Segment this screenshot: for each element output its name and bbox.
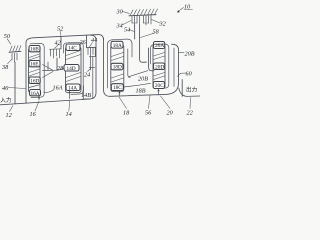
- svg-text:出力: 出力: [186, 86, 198, 94]
- svg-text:44: 44: [91, 37, 97, 44]
- svg-text:46: 46: [2, 85, 9, 92]
- svg-text:60: 60: [186, 71, 193, 78]
- svg-text:16A: 16A: [31, 91, 40, 97]
- svg-text:18A: 18A: [113, 43, 122, 49]
- svg-text:20A: 20A: [155, 43, 164, 49]
- svg-text:34: 34: [116, 23, 123, 30]
- svg-text:16: 16: [30, 111, 37, 118]
- svg-text:14D: 14D: [67, 66, 76, 72]
- svg-text:56: 56: [145, 110, 152, 117]
- svg-text:12: 12: [6, 112, 12, 119]
- svg-text:14A: 14A: [68, 85, 77, 91]
- svg-text:22: 22: [187, 110, 193, 117]
- svg-text:16D: 16D: [30, 78, 39, 84]
- svg-text:18D: 18D: [113, 65, 122, 71]
- svg-text:16E: 16E: [30, 62, 39, 68]
- svg-text:30: 30: [116, 9, 124, 16]
- svg-text:入力: 入力: [0, 96, 12, 104]
- svg-text:20: 20: [167, 110, 174, 117]
- svg-text:32: 32: [159, 21, 166, 28]
- svg-text:26: 26: [80, 39, 87, 46]
- svg-text:50: 50: [4, 33, 11, 40]
- svg-text:14B: 14B: [81, 92, 91, 99]
- svg-text:14: 14: [66, 111, 72, 118]
- svg-text:58: 58: [153, 29, 160, 36]
- svg-text:16B: 16B: [30, 47, 39, 53]
- svg-text:18C: 18C: [113, 85, 122, 91]
- svg-text:16A: 16A: [53, 85, 63, 92]
- svg-text:52: 52: [57, 25, 63, 32]
- svg-text:14C: 14C: [68, 45, 77, 51]
- svg-text:20C: 20C: [155, 83, 164, 89]
- svg-text:42: 42: [55, 39, 61, 46]
- svg-text:54: 54: [124, 27, 130, 34]
- svg-text:10: 10: [184, 4, 191, 11]
- svg-text:18B: 18B: [136, 88, 146, 95]
- svg-text:20B: 20B: [138, 76, 148, 83]
- svg-text:18: 18: [123, 110, 130, 117]
- svg-text:24: 24: [84, 72, 90, 79]
- svg-text:20D: 20D: [155, 64, 164, 70]
- svg-text:28: 28: [57, 65, 64, 72]
- svg-text:38: 38: [1, 64, 9, 71]
- svg-text:20B: 20B: [185, 51, 195, 58]
